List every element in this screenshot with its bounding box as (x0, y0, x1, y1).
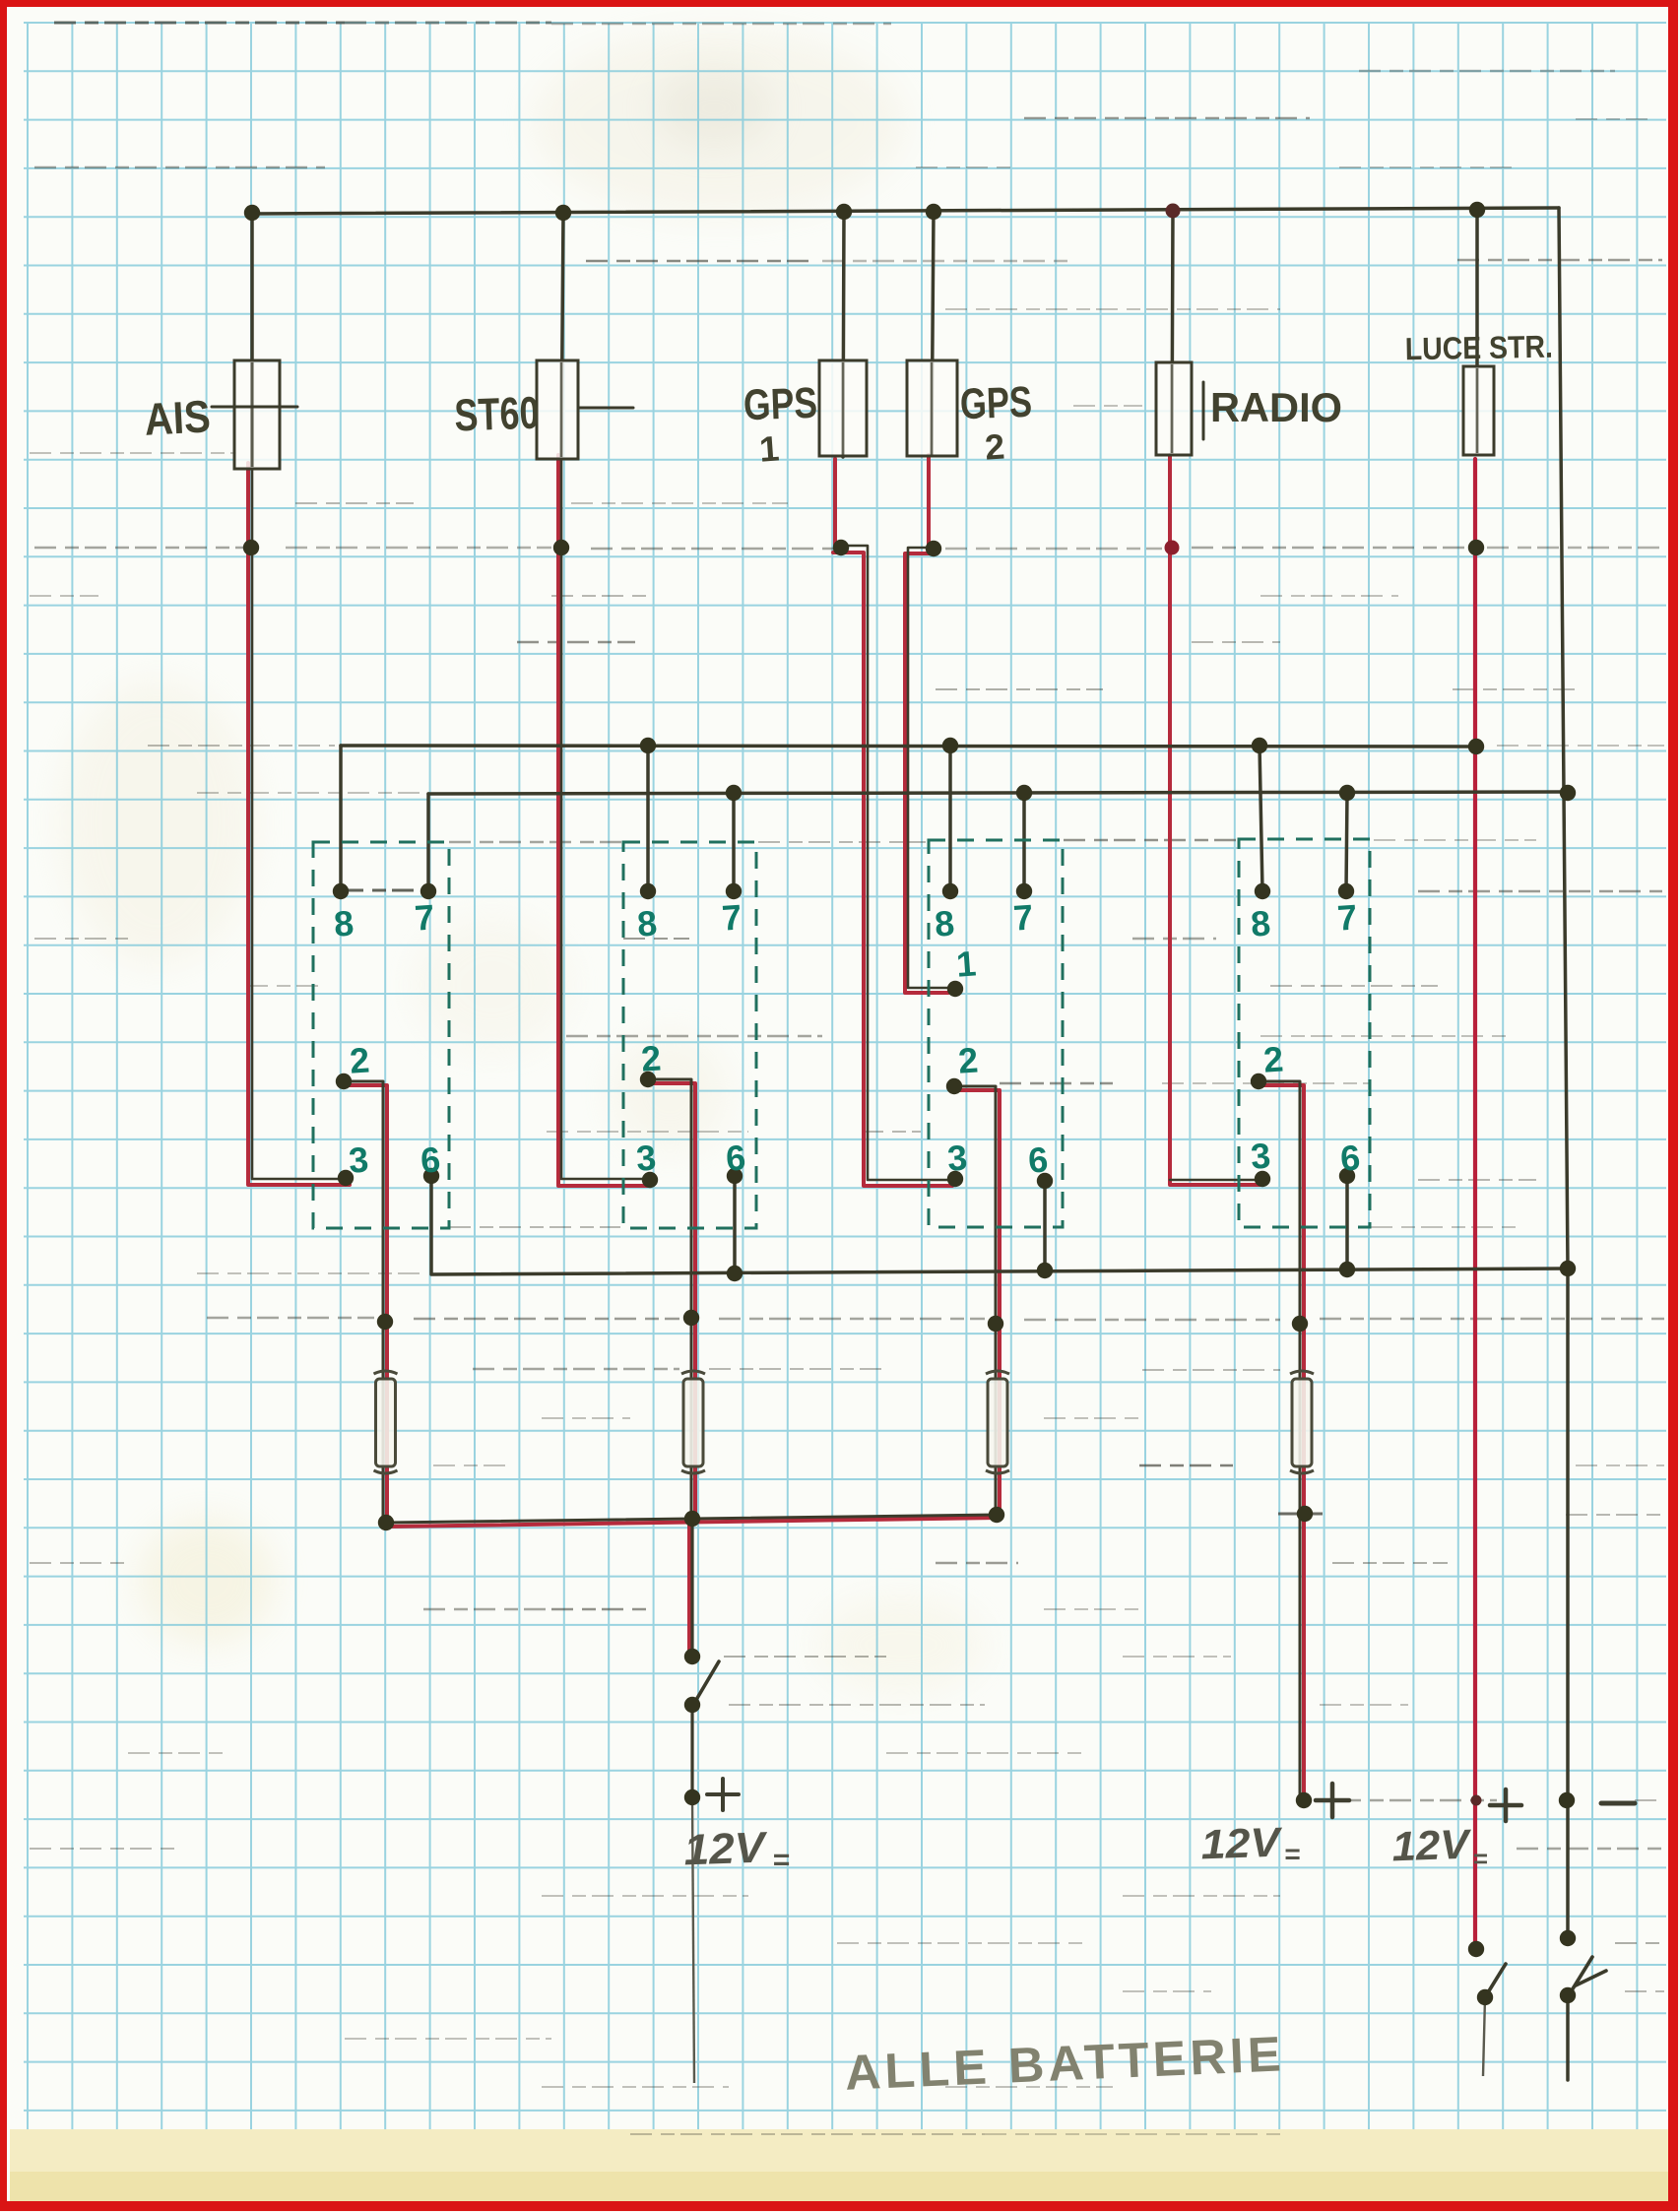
svg-text:3: 3 (946, 1137, 969, 1178)
svg-text:ST60: ST60 (454, 387, 541, 441)
svg-text:2: 2 (957, 1039, 980, 1080)
svg-text:8: 8 (333, 902, 355, 943)
svg-text:2: 2 (1262, 1038, 1285, 1079)
svg-text:8: 8 (636, 902, 659, 943)
svg-text:12V: 12V (1200, 1819, 1284, 1868)
svg-text:6: 6 (1027, 1139, 1050, 1180)
svg-text:=: = (772, 1844, 790, 1876)
svg-text:7: 7 (1012, 896, 1035, 938)
svg-text:12V: 12V (683, 1823, 769, 1874)
svg-text:=: = (1472, 1844, 1487, 1873)
svg-text:7: 7 (414, 896, 436, 938)
svg-text:GPS: GPS (743, 379, 818, 430)
svg-text:6: 6 (1339, 1137, 1362, 1178)
svg-text:3: 3 (348, 1139, 370, 1180)
svg-text:12V: 12V (1391, 1821, 1473, 1870)
svg-text:1: 1 (758, 427, 781, 469)
svg-text:AIS: AIS (143, 390, 212, 444)
svg-text:1: 1 (955, 943, 978, 984)
svg-text:RADIO: RADIO (1210, 384, 1342, 430)
svg-text:8: 8 (934, 902, 956, 943)
svg-text:GPS: GPS (959, 378, 1033, 429)
svg-text:8: 8 (1250, 902, 1272, 943)
svg-text:7: 7 (721, 896, 743, 938)
svg-text:LUCE STR.: LUCE STR. (1405, 329, 1554, 367)
svg-text:2: 2 (349, 1039, 371, 1080)
svg-text:6: 6 (725, 1137, 747, 1178)
svg-text:2: 2 (640, 1037, 663, 1078)
svg-text:3: 3 (1250, 1135, 1272, 1176)
svg-text:3: 3 (635, 1137, 658, 1178)
svg-text:2: 2 (984, 425, 1006, 467)
svg-text:6: 6 (420, 1139, 442, 1180)
svg-text:7: 7 (1336, 896, 1359, 938)
svg-text:=: = (1284, 1839, 1300, 1869)
